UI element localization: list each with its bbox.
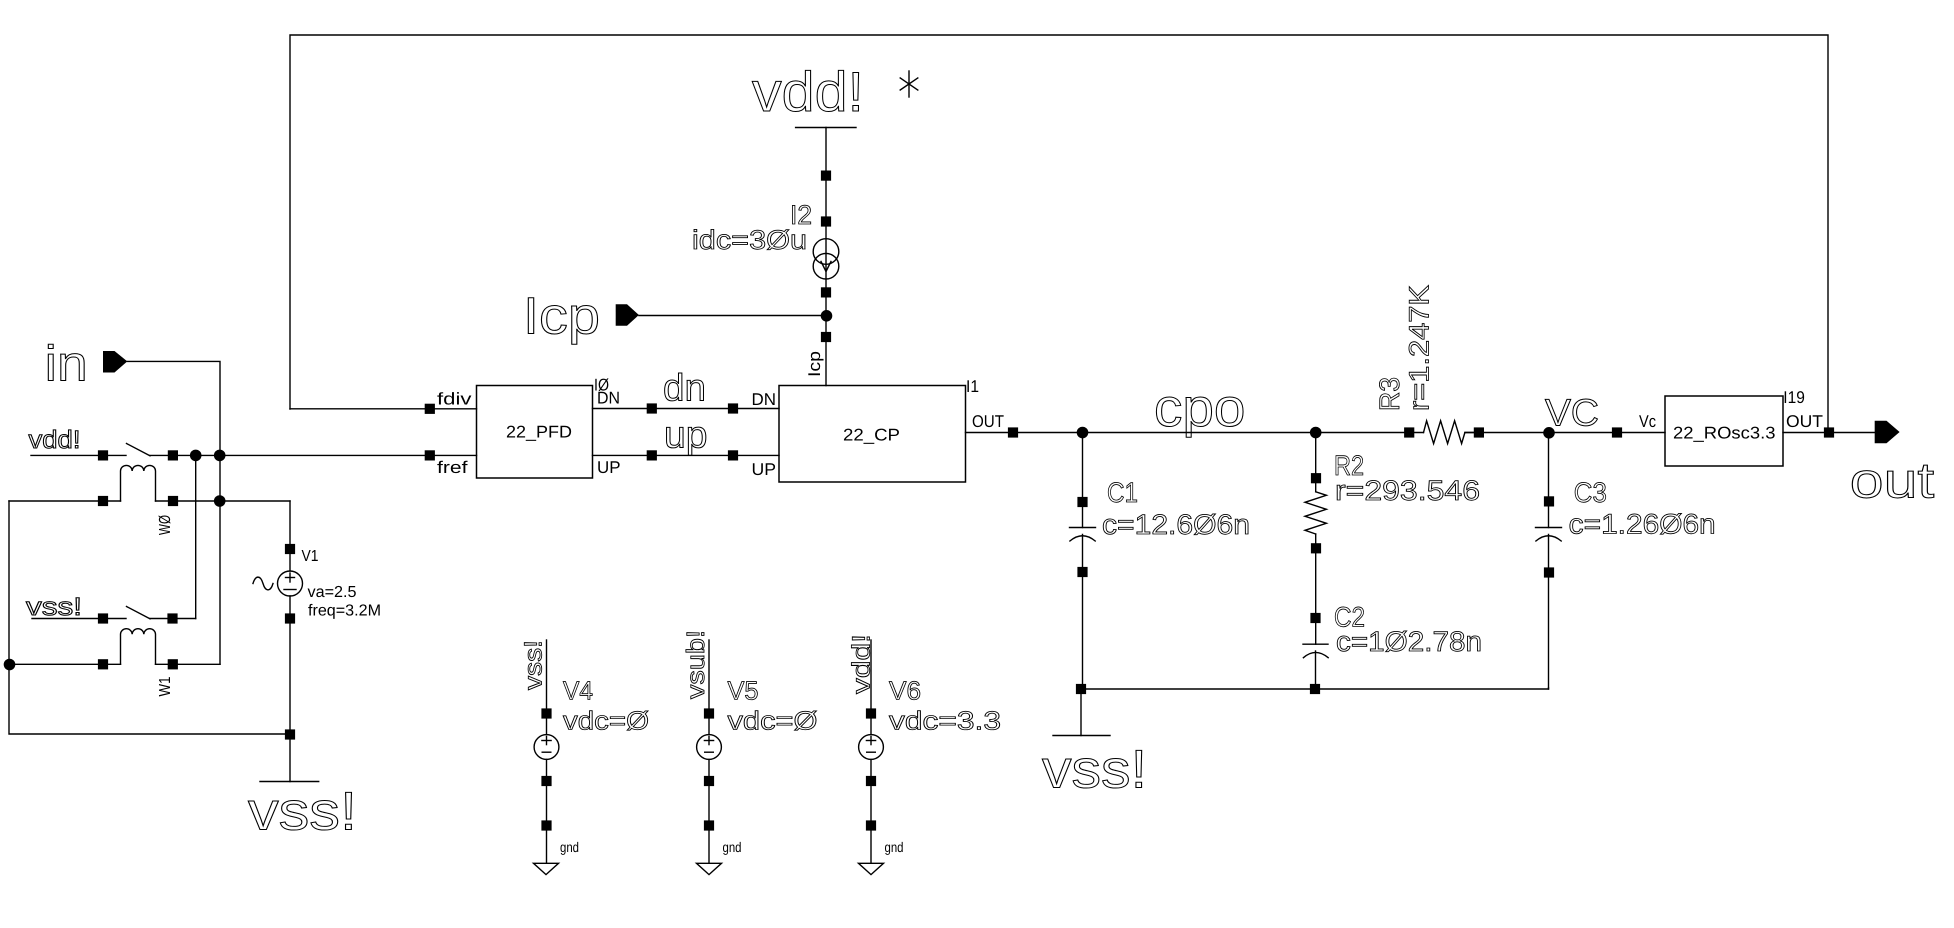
capacitor C2: [1303, 644, 1328, 689]
junction dot vdd net to vss switch branch: [190, 450, 202, 462]
svg-text:gnd: gnd: [885, 839, 904, 855]
voltage source V4 column: [534, 640, 559, 863]
svg-text:V4: V4: [563, 676, 593, 706]
pin square vss switch right: [167, 613, 177, 623]
inductor W1: [9, 629, 220, 665]
svg-text:UP: UP: [597, 458, 621, 477]
pin square dn right: [728, 403, 738, 413]
pin Icp: [616, 304, 639, 326]
svg-text:V5: V5: [728, 676, 759, 706]
pin square fdiv: [425, 404, 435, 414]
pin square ROsc OUT: [1824, 427, 1834, 437]
pin square CP Icp pin: [821, 332, 831, 342]
pin square R3 right: [1474, 427, 1484, 437]
pin square W0 left: [98, 496, 108, 506]
pin square V4 minus: [541, 776, 551, 786]
svg-text:W1: W1: [157, 676, 174, 696]
pin square C3 bottom: [1544, 567, 1554, 577]
pin square I2 top: [821, 216, 831, 226]
current source I2: [813, 239, 839, 279]
junction dot left rail at W1 wire: [4, 659, 16, 671]
pin square up right: [728, 450, 738, 460]
svg-text:vdd!: vdd!: [848, 634, 876, 694]
svg-text:cpo: cpo: [1154, 378, 1246, 438]
svg-text:I19: I19: [1783, 388, 1805, 407]
svg-text:V6: V6: [889, 676, 921, 706]
svg-text:up: up: [664, 414, 708, 456]
pin square V4 gnd: [541, 820, 551, 830]
ground bar right vss!: [1053, 735, 1110, 737]
svg-text:Icp: Icp: [805, 351, 824, 377]
wire vdd to I2 to CP: [825, 128, 827, 386]
svg-text:fdiv: fdiv: [437, 390, 472, 409]
pin out: [1875, 421, 1900, 444]
pin square C1 top: [1077, 497, 1087, 507]
svg-text:c=1.26Ø6n: c=1.26Ø6n: [1569, 509, 1716, 540]
inductor W0: [9, 465, 290, 501]
ground gnd triangle V4: [534, 863, 559, 874]
svg-text:DN: DN: [752, 390, 777, 409]
wire out net: [1783, 432, 1875, 434]
pin square V6 plus: [866, 708, 876, 718]
pin square vss switch left: [98, 613, 108, 623]
wire vss net left: [32, 618, 126, 620]
svg-text:vdd!: vdd!: [752, 60, 864, 123]
pin square bus left / C1 bottom node: [1076, 684, 1086, 694]
pin square ROsc Vc: [1612, 427, 1622, 437]
asterisk global net marker: [900, 71, 918, 97]
svg-text:vdc=Ø: vdc=Ø: [563, 706, 649, 736]
resistor R3: [1424, 421, 1666, 444]
ground gnd triangle V6: [859, 863, 884, 874]
pin square CP OUT: [1008, 427, 1018, 437]
svg-text:22_CP: 22_CP: [843, 426, 900, 445]
resistor R2: [1305, 433, 1326, 645]
wire left rail: [9, 501, 290, 734]
svg-text:OUT: OUT: [972, 412, 1004, 431]
pin square vdd switch left: [98, 450, 108, 460]
capacitor C1: [1070, 433, 1096, 690]
pin square W0 right: [168, 496, 178, 506]
junction dot in net at W0 wire: [214, 495, 226, 507]
svg-text:DN: DN: [597, 389, 620, 408]
pin square W1 right: [168, 659, 178, 669]
wire vss stub right: [1080, 689, 1082, 736]
wire up net: [593, 454, 780, 456]
wire vdd to fref: [150, 454, 477, 456]
svg-text:vss!: vss!: [248, 782, 357, 842]
svg-text:vss!: vss!: [1042, 740, 1147, 800]
junction dot cpo net at C1: [1077, 427, 1089, 439]
svg-text:I1: I1: [966, 377, 979, 396]
svg-text:gnd: gnd: [560, 839, 579, 855]
wire dn net: [593, 408, 780, 410]
svg-text:freq=3.2M: freq=3.2M: [308, 603, 381, 620]
pin square V5 plus: [704, 708, 714, 718]
junction dot cpo net at R2: [1310, 427, 1322, 439]
pin square V1 minus: [285, 613, 295, 623]
svg-text:R3: R3: [1374, 377, 1405, 411]
svg-text:V1: V1: [302, 548, 319, 565]
pin square V1 plus: [285, 544, 295, 554]
pin square C1 bottom: [1077, 567, 1087, 577]
pin square V1 ground: [285, 729, 295, 739]
wire Icp net: [639, 315, 826, 317]
pin square V5 minus: [704, 776, 714, 786]
svg-text:r=293.546: r=293.546: [1335, 475, 1480, 506]
svg-text:vss!: vss!: [520, 640, 548, 690]
svg-text:VC: VC: [1545, 393, 1599, 435]
pin square R2 bottom: [1311, 543, 1321, 553]
junction dot in net at vdd wire: [214, 450, 226, 462]
block 22_CP I1: [779, 386, 966, 483]
svg-text:vdd!: vdd!: [29, 426, 81, 454]
voltage source V6 column: [859, 640, 884, 863]
capacitor C3: [1536, 433, 1562, 690]
pin square V4 plus: [541, 708, 551, 718]
svg-text:gnd: gnd: [723, 839, 742, 855]
svg-text:idc=3Øu: idc=3Øu: [692, 225, 807, 255]
pin square W1 left: [98, 659, 108, 669]
pin square V6 gnd: [866, 820, 876, 830]
pin square R3 left: [1404, 427, 1414, 437]
pin square bus C2 bottom node: [1310, 684, 1320, 694]
svg-text:C3: C3: [1574, 477, 1607, 508]
wire vdd net left: [31, 454, 126, 456]
pin square fref: [425, 450, 435, 460]
switch blade vdd: [127, 444, 151, 456]
svg-text:vsub!: vsub!: [682, 630, 710, 699]
wire fdiv net: [290, 408, 477, 410]
ground gnd triangle V5: [697, 863, 722, 874]
svg-text:va=2.5: va=2.5: [308, 584, 357, 601]
svg-text:c=12.6Ø6n: c=12.6Ø6n: [1102, 509, 1250, 540]
wire vss switch to junction: [150, 618, 196, 620]
wire feedback loop top: [290, 35, 1828, 433]
svg-text:22_ROsc3.3: 22_ROsc3.3: [1673, 424, 1776, 443]
svg-text:22_PFD: 22_PFD: [506, 423, 572, 442]
pin square V5 gnd: [704, 820, 714, 830]
power vdd! top bar: [796, 127, 856, 129]
voltage source V1: [253, 501, 303, 782]
pin square dn left: [647, 403, 657, 413]
wire cpo net: [966, 432, 1424, 434]
ground bar V1 vss!: [260, 781, 319, 783]
pin square R2 top: [1311, 473, 1321, 483]
junction dot Icp net: [821, 310, 833, 322]
pin square C2 top: [1310, 613, 1320, 623]
svg-text:WØ: WØ: [157, 515, 174, 535]
block 22_PFD instance I0: [477, 386, 593, 479]
junction dot VC net at C3: [1543, 427, 1555, 439]
svg-text:dn: dn: [663, 368, 706, 410]
pin in: [103, 351, 127, 373]
svg-text:vss!: vss!: [26, 593, 82, 621]
svg-text:UP: UP: [752, 460, 777, 479]
pin square C3 top: [1544, 496, 1554, 506]
svg-text:OUT: OUT: [1786, 412, 1823, 431]
pin square vdd switch right: [168, 450, 178, 460]
svg-text:vdc=Ø: vdc=Ø: [728, 706, 818, 736]
svg-text:c=1Ø2.78n: c=1Ø2.78n: [1336, 626, 1482, 657]
pin square up left: [647, 450, 657, 460]
wire ground bus: [1081, 688, 1549, 689]
block 22_ROsc3.3 I19: [1665, 396, 1783, 466]
pin square V6 minus: [866, 776, 876, 786]
svg-text:out: out: [1850, 453, 1935, 509]
pin square I2 bottom: [821, 287, 831, 297]
switch blade vss: [127, 607, 151, 619]
svg-text:vdc=3.3: vdc=3.3: [889, 706, 1001, 736]
wire in net: [127, 361, 220, 664]
svg-text:C1: C1: [1107, 477, 1138, 508]
wire vertical to vss switch: [195, 455, 197, 618]
voltage source V5 column: [697, 640, 722, 863]
svg-text:r=1.247K: r=1.247K: [1404, 285, 1435, 411]
svg-text:Vc: Vc: [1639, 412, 1656, 431]
svg-text:in: in: [45, 336, 88, 392]
svg-text:fref: fref: [437, 458, 468, 477]
pin square vdd bar: [821, 171, 831, 181]
svg-text:Icp: Icp: [523, 288, 600, 346]
